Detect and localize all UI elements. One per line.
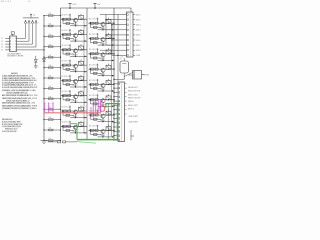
wire riser header bar xyxy=(23,17,39,19)
wire stage bottom B4 xyxy=(98,75,115,77)
wire stage A4 row xyxy=(61,64,87,66)
wire lower A6 xyxy=(63,99,74,101)
resistor RB8c xyxy=(94,134,98,136)
svg-text:R2 4.7K CR3: R2 4.7K CR3 xyxy=(89,110,99,112)
wire to right bus row 2 xyxy=(112,38,115,40)
wire branch down B7 xyxy=(90,115,92,119)
wire J1 pin 9 lead xyxy=(123,54,127,56)
wire supply stub A2 xyxy=(69,29,71,34)
wire stage bottom A1 xyxy=(70,25,87,27)
relay KA5 xyxy=(79,77,84,81)
wire supply stub A6 xyxy=(69,90,71,95)
junction left bus row 11 xyxy=(43,119,44,120)
wire J2 pin 2 lead xyxy=(114,87,118,89)
junction left bus row 9 xyxy=(43,98,44,99)
wire J2 pin 3 lead xyxy=(114,91,118,93)
wire link xA row 3 xyxy=(83,50,85,65)
svg-text:R2 4.7K CR3: R2 4.7K CR3 xyxy=(62,61,72,63)
relay KB6 xyxy=(106,96,111,100)
wire lower B8 xyxy=(91,134,102,136)
resistor RA2b xyxy=(68,34,71,36)
connector J1 body xyxy=(127,12,134,57)
wire emitter drop B7 xyxy=(102,118,104,121)
wire CR20 bottom xyxy=(35,62,37,66)
svg-text:DIG 1: DIG 1 xyxy=(136,14,140,16)
resistor RB5c xyxy=(94,88,98,90)
wire J1 pin 8 lead xyxy=(123,49,127,51)
tick bracket right xyxy=(131,135,134,137)
stub J2 pin 8 right xyxy=(125,113,127,115)
pin square J1-2 xyxy=(127,19,128,20)
wire right bus V4 x=114 xyxy=(113,8,115,140)
zener CR21 on left bus xyxy=(42,59,45,62)
svg-text:SEG F OUT: SEG F OUT xyxy=(128,105,139,107)
wire header stub up xyxy=(30,15,32,18)
wire J2 pin 12 lead xyxy=(114,130,118,132)
relay KB1 xyxy=(106,19,111,23)
wire branch down B3 xyxy=(90,54,92,58)
resistor R18 10K xyxy=(48,88,53,90)
wire stage A2 row xyxy=(61,34,87,36)
wire lower B2 xyxy=(91,42,102,44)
stub J2 pin 6 right xyxy=(125,104,127,106)
junction emitter B8 xyxy=(102,136,103,137)
wire to right bus row 1 xyxy=(112,22,115,24)
wire to right bus row 8 xyxy=(112,129,115,131)
resistor RB3a xyxy=(90,53,94,55)
wire U1 left pin 4 xyxy=(5,46,9,48)
wire J1 pin 4 lead xyxy=(123,29,127,31)
relay diagonal B1 xyxy=(106,19,111,23)
wire branch down A8 xyxy=(62,126,64,130)
wire stage bottom B5 xyxy=(98,90,115,92)
green short drop x=105.8 xyxy=(105,104,107,109)
pin square J2-11 xyxy=(118,126,119,127)
resistor RB8a xyxy=(90,129,94,131)
svg-text:SEG E: SEG E xyxy=(128,101,134,103)
wire lower B3 xyxy=(91,57,102,59)
stub J2 pin 4 right xyxy=(125,96,127,98)
junction emitter B5 xyxy=(102,90,103,91)
resistor RB1b xyxy=(95,22,98,24)
junction J2 pin 7 xyxy=(113,109,114,110)
wire link xA row 6 xyxy=(83,96,85,111)
wire branch down B6 xyxy=(90,100,92,104)
pin square J2-12 xyxy=(118,131,119,132)
wire diagonal to P2 xyxy=(124,73,132,77)
wire riser 3 vertical xyxy=(32,23,34,44)
stub J2 pin 1 right xyxy=(125,83,127,85)
svg-text:10K: 10K xyxy=(49,128,52,130)
stub J1 pin 9 right xyxy=(133,54,135,56)
pin square J1-3 xyxy=(127,24,128,25)
wire C1 to P2 xyxy=(129,74,133,76)
svg-text:10K: 10K xyxy=(49,96,52,98)
relay diagonal A4 xyxy=(79,61,84,65)
wire input row 12 xyxy=(44,129,61,131)
relay diagonal A8 xyxy=(79,123,84,127)
svg-text:R2 4.7K CR3: R2 4.7K CR3 xyxy=(89,126,99,128)
resistor RB2b xyxy=(95,38,98,40)
relay KA7 xyxy=(79,107,84,111)
wire input row 11 xyxy=(44,119,61,121)
relay diagonal A3 xyxy=(79,46,84,50)
svg-text:R2 4.7K CR3: R2 4.7K CR3 xyxy=(62,45,72,47)
green bottom bar xyxy=(77,139,117,141)
svg-text:10K: 10K xyxy=(49,76,52,78)
wire top supply bus xyxy=(61,7,132,9)
svg-text:R2 4.7K CR3: R2 4.7K CR3 xyxy=(62,15,72,17)
junction left bus row 4 xyxy=(43,46,44,47)
svg-text:DIG 3: DIG 3 xyxy=(136,25,140,27)
wire supply stub A7 xyxy=(69,106,71,111)
svg-text:10K: 10K xyxy=(49,117,52,119)
transistor QB1 xyxy=(101,22,105,26)
wire stage B4 row xyxy=(89,68,115,70)
relay KA4 xyxy=(79,61,84,65)
transistor QA3 xyxy=(73,49,77,53)
pin square P2-2 xyxy=(133,74,135,76)
wire J2 pin 8 lead xyxy=(114,113,118,115)
junction out A3 xyxy=(84,56,85,57)
ground below CR20 xyxy=(34,65,38,67)
junction U1 wire at V1 xyxy=(43,49,44,50)
wire J1 pin 5 lead xyxy=(123,34,127,36)
resistor R14 10K xyxy=(48,46,53,48)
wire link xB row 4 xyxy=(111,69,113,84)
svg-text:R2 4.7K CR3: R2 4.7K CR3 xyxy=(89,34,99,36)
wire riser 2 vertical xyxy=(28,23,30,41)
pin square J1-9 xyxy=(127,55,128,56)
resistor RB5a xyxy=(90,83,94,85)
wire branch down B8 xyxy=(90,130,92,134)
wire stage B7 row xyxy=(89,114,115,116)
wire relay top B4 xyxy=(108,64,110,66)
wire stage bottom B6 xyxy=(98,105,115,107)
junction right bus row 5 xyxy=(113,84,114,85)
wire lower A3 xyxy=(63,53,74,55)
resistor RB2a xyxy=(90,38,94,40)
connector arrow riser 2 xyxy=(28,20,30,23)
wire branch down B1 xyxy=(90,23,92,27)
junction out A2 xyxy=(84,40,85,41)
wire relay top B1 xyxy=(108,18,110,20)
junction C1 bus xyxy=(113,79,114,80)
wire branch down A6 xyxy=(62,96,64,100)
wire stage B8 row xyxy=(89,129,115,131)
power +V symbol 2 xyxy=(94,4,96,9)
stub J1 pin 6 right xyxy=(133,39,135,41)
highlighter green wire top xyxy=(105,103,120,105)
resistor RA6b xyxy=(68,95,71,97)
wire relay top B7 xyxy=(108,110,110,112)
wire J2 pin 4 lead xyxy=(114,96,118,98)
wire J2 pin 10 lead xyxy=(114,122,118,124)
resistor R111 10K xyxy=(48,119,53,121)
wire supply stub B2 xyxy=(97,33,99,38)
junction right bus row 1 xyxy=(113,23,114,24)
svg-text:DIG 8: DIG 8 xyxy=(136,50,140,52)
resistor R40 xyxy=(58,141,61,143)
relay KB8 xyxy=(106,127,111,131)
pin square U1 R4 xyxy=(15,46,18,49)
pin square J2-1 xyxy=(118,83,119,84)
svg-text:10K: 10K xyxy=(49,65,52,67)
wire relay top A5 xyxy=(80,75,82,77)
wire branch down A4 xyxy=(62,65,64,69)
wire emitter drop B2 xyxy=(102,42,104,45)
wire lower B6 xyxy=(91,103,102,105)
relay KA2 xyxy=(79,31,84,35)
capacitor C1 can xyxy=(120,61,129,73)
wire to J1 xyxy=(106,19,123,21)
resistor RA7b xyxy=(68,110,71,112)
svg-text:DIG 6: DIG 6 xyxy=(136,40,140,42)
wire C1 top xyxy=(123,58,125,61)
svg-text:+12V: +12V xyxy=(72,4,77,6)
junction feeder xyxy=(117,55,118,56)
relay diagonal B3 xyxy=(106,50,111,54)
stub J2 pin 5 right xyxy=(125,100,127,102)
wire J2 pin 5 lead xyxy=(114,100,118,102)
svg-text:COM: COM xyxy=(136,55,141,57)
svg-text:6. U1 IS 74C908 DUAL CMOS DRIV: 6. U1 IS 74C908 DUAL CMOS DRIVER xyxy=(2,86,38,89)
transistor QA2 xyxy=(73,34,77,38)
junction J2 pin 12 xyxy=(113,131,114,132)
junction out B7 xyxy=(112,121,113,122)
resistor R16 10K xyxy=(48,67,53,69)
wire J1 pin 1 lead xyxy=(123,14,127,16)
J1 inner line xyxy=(129,13,131,57)
svg-text:R2 4.7K CR3: R2 4.7K CR3 xyxy=(89,49,99,51)
transistor QA1 xyxy=(73,18,77,22)
wire stage bottom A5 xyxy=(70,86,87,88)
resistor RA8a xyxy=(63,125,67,127)
svg-text:J3: J3 xyxy=(33,15,35,17)
svg-text:SEG G: SEG G xyxy=(128,109,134,111)
junction right bus row 4 xyxy=(113,68,114,69)
svg-text:SEG C OUT: SEG C OUT xyxy=(128,94,139,96)
stub J1 pin 5 right xyxy=(133,34,135,36)
resistor RB1a xyxy=(90,22,94,24)
junction J2 pin 1 xyxy=(113,83,114,84)
junction left bus row 8 xyxy=(43,88,44,89)
resistor RA5c xyxy=(66,84,70,86)
resistor RA6c xyxy=(66,99,70,101)
junction emitter B2 xyxy=(102,44,103,45)
junction left bus row 3 xyxy=(43,36,44,37)
svg-text:SEG D OUT HI: SEG D OUT HI xyxy=(128,98,141,100)
wire branch down B2 xyxy=(90,39,92,43)
svg-text:DIG 5: DIG 5 xyxy=(136,35,140,37)
resistor RB8b xyxy=(95,129,98,131)
resistor RB3c xyxy=(94,57,98,59)
wire J2 pin 9 lead xyxy=(114,117,118,119)
svg-text:DIG 7: DIG 7 xyxy=(136,45,140,47)
transistor QB3 xyxy=(101,53,105,57)
junction out B6 xyxy=(112,106,113,107)
pin square J1-5 xyxy=(127,34,128,35)
wire U1 left pin 3 xyxy=(5,43,9,45)
svg-text:R2 4.7K CR3: R2 4.7K CR3 xyxy=(89,65,99,67)
pin square U1 R3 xyxy=(15,43,18,46)
svg-text:COM 2 RET: COM 2 RET xyxy=(128,122,139,124)
relay diagonal B2 xyxy=(106,35,111,39)
svg-text:SEG B OUT HI: SEG B OUT HI xyxy=(128,91,141,93)
wire relay top B8 xyxy=(108,125,110,127)
junction emitter A3 xyxy=(75,56,76,57)
wire to J1 xyxy=(100,29,123,31)
wire input row 1 xyxy=(44,15,61,17)
wire emitter drop B3 xyxy=(102,57,104,60)
resistor RA8b xyxy=(68,125,71,127)
wire to J1 xyxy=(106,44,123,46)
wire branch down A3 xyxy=(62,50,64,54)
resistor RA3c xyxy=(66,53,70,55)
svg-text:R2 4.7K CR3: R2 4.7K CR3 xyxy=(62,30,72,32)
wire bottom xyxy=(48,141,58,143)
magenta stroke lower 1 xyxy=(90,107,92,117)
junction out A5 xyxy=(84,86,85,87)
junction emitter A8 xyxy=(75,132,76,133)
resistor RA3b xyxy=(68,49,71,51)
stub J1 pin 2 right xyxy=(133,19,135,21)
junction emitter A4 xyxy=(75,71,76,72)
wire supply stub A1 xyxy=(69,14,71,19)
wire stage B6 row xyxy=(89,99,115,101)
junction out A6 xyxy=(84,102,85,103)
wire lower A1 xyxy=(63,22,74,24)
highlighter magenta strokes group A xyxy=(43,103,45,113)
resistor RB7b xyxy=(95,114,98,116)
resistor RA2c xyxy=(66,38,70,40)
junction out A4 xyxy=(84,71,85,72)
junction right bus row 3 xyxy=(113,53,114,54)
svg-text:14: 14 xyxy=(1,47,3,49)
svg-text:13: 13 xyxy=(1,44,3,46)
resistor RB4a xyxy=(90,68,94,70)
wire link xB row 5 xyxy=(111,84,113,99)
pin square J2-4 xyxy=(118,96,119,97)
resistor R12 10K xyxy=(48,25,53,27)
resistor R19 10K xyxy=(48,98,53,100)
wire stage A6 row xyxy=(61,95,87,97)
wire lower B1 xyxy=(91,26,102,28)
junction feeder xyxy=(111,39,112,40)
connector J2 body xyxy=(118,82,125,142)
wire vertical x=112 xyxy=(111,25,113,56)
wire input row 3 xyxy=(44,35,61,37)
junction J2 pin 5 xyxy=(113,100,114,101)
wire to right bus row 4 xyxy=(112,68,115,70)
stub J1 pin 8 right xyxy=(133,49,135,51)
relay diagonal A5 xyxy=(79,77,84,81)
wire stage bottom A6 xyxy=(70,101,87,103)
pin square J2-14 xyxy=(118,139,119,140)
wire input row 8 xyxy=(44,87,61,89)
wire emitter drop A7 xyxy=(75,114,77,117)
junction J2 pin 4 xyxy=(113,96,114,97)
wire lower A5 xyxy=(63,84,74,86)
resistor RB4c xyxy=(94,72,98,74)
connector arrow riser 4 xyxy=(35,20,37,23)
wire supply stub A4 xyxy=(69,60,71,65)
wire emitter drop B1 xyxy=(102,26,104,29)
pin square U1 R5 xyxy=(15,48,18,51)
wire stage A3 row xyxy=(61,49,87,51)
resistor RA3a xyxy=(63,49,67,51)
wire stage A5 row xyxy=(61,79,87,81)
wire emitter drop B6 xyxy=(102,103,104,106)
svg-text:D 6-2-78 CHG U1: D 6-2-78 CHG U1 xyxy=(2,131,16,133)
wire bracket right xyxy=(130,130,132,141)
wire C1 to bus xyxy=(114,79,124,81)
wire to right bus row 3 xyxy=(112,53,115,55)
wire J2 pin 14 lead xyxy=(114,139,118,141)
wire relay top B2 xyxy=(108,33,110,35)
stub J1 pin 3 right xyxy=(133,24,135,26)
diode CR20 below IC xyxy=(34,60,37,63)
junction left bus row 7 xyxy=(43,77,44,78)
junction J2 pin 14 xyxy=(113,139,114,140)
highlighter red line xyxy=(44,112,101,114)
wire input row 9 xyxy=(44,98,61,100)
svg-text:R2 4.7K CR3: R2 4.7K CR3 xyxy=(89,19,99,21)
wire U1 pin to riser 1 xyxy=(17,37,26,39)
resistor RA4c xyxy=(66,68,70,70)
wire to J1 xyxy=(112,54,123,56)
svg-text:R2 4.7K CR3: R2 4.7K CR3 xyxy=(89,80,99,82)
relay KA3 xyxy=(79,46,84,50)
junction left bus row 2 xyxy=(43,25,44,26)
junction out B2 xyxy=(112,44,113,45)
resistor R113 10K xyxy=(48,140,53,142)
junction J2 pin 11 xyxy=(113,126,114,127)
pin square J2-9 xyxy=(118,118,119,119)
wire supply stub A3 xyxy=(69,44,71,49)
resistor RB3b xyxy=(95,53,98,55)
wire supply stub B4 xyxy=(97,64,99,69)
svg-text:COM 1 RET: COM 1 RET xyxy=(128,116,139,118)
wire stage bottom A8 xyxy=(70,132,87,134)
junction out A8 xyxy=(84,132,85,133)
svg-text:R2 4.7K CR3: R2 4.7K CR3 xyxy=(62,122,72,124)
wire J1 pin 3 lead xyxy=(123,24,127,26)
pin square U1 L1 xyxy=(9,37,12,40)
wire to J1 xyxy=(100,14,123,16)
wire supply stub B8 xyxy=(97,125,99,130)
transistor QA8 xyxy=(73,125,77,129)
wire J1 pin 2 lead xyxy=(123,19,127,21)
wire lower A2 xyxy=(63,38,74,40)
junction emitter A1 xyxy=(75,25,76,26)
ground symbol at V1 bottom xyxy=(41,139,48,141)
relay KB2 xyxy=(106,35,111,39)
pin square J2-7 xyxy=(118,109,119,110)
wire emitter drop A5 xyxy=(75,84,77,87)
relay KA6 xyxy=(79,92,84,96)
wire relay top B3 xyxy=(108,48,110,50)
wire input row 6 xyxy=(44,67,61,69)
wire supply stub A5 xyxy=(69,75,71,80)
resistor RB7c xyxy=(94,118,98,120)
wire stage bottom B2 xyxy=(98,44,115,46)
wire emitter drop A8 xyxy=(75,130,77,133)
junction feeder xyxy=(111,24,112,25)
wire link xB row 2 xyxy=(111,39,113,54)
svg-text:R2 4.7K CR3: R2 4.7K CR3 xyxy=(62,76,72,78)
wire U1 pin to riser 2 xyxy=(17,40,29,42)
